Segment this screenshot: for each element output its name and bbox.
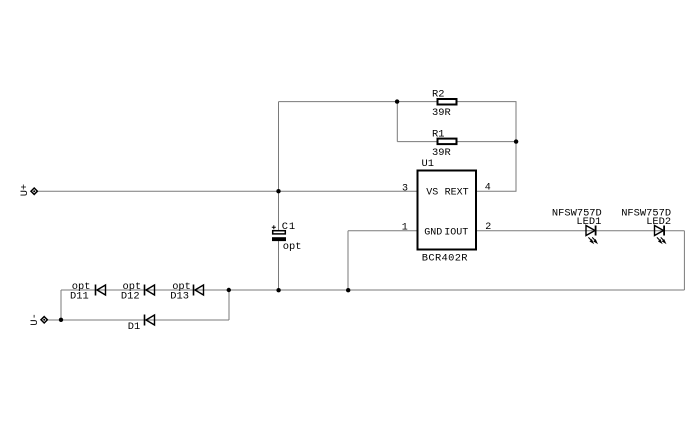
svg-text:1: 1 bbox=[402, 223, 408, 234]
junction node at (348,290) bbox=[346, 288, 350, 292]
junction node at (278.5,290) bbox=[276, 288, 280, 292]
diode D13 bbox=[194, 285, 204, 296]
resistor R2 bbox=[438, 99, 457, 105]
junction node at (278.5,191) bbox=[276, 189, 280, 193]
wire R2 branch bbox=[397, 101, 516, 103]
wire left resistor node vertical bbox=[396, 102, 398, 142]
svg-text:U-: U- bbox=[29, 313, 41, 325]
svg-text:3: 3 bbox=[402, 183, 408, 194]
wire pin 1 GND bbox=[348, 230, 418, 232]
capacitor C1 bbox=[272, 225, 286, 241]
resistor R1 bbox=[438, 139, 457, 145]
svg-text:R1: R1 bbox=[432, 129, 444, 141]
svg-text:LED2: LED2 bbox=[646, 216, 671, 228]
svg-text:39R: 39R bbox=[432, 147, 451, 159]
svg-text:BCR402R: BCR402R bbox=[422, 253, 468, 265]
wire top horizontal to resistor node bbox=[279, 101, 398, 103]
terminal U- bbox=[29, 313, 48, 325]
junction node at (516,141.5) bbox=[514, 139, 518, 143]
svg-text:U+: U+ bbox=[19, 184, 31, 196]
junction node at (228.5,290) bbox=[227, 288, 231, 292]
wire C1 upper lead bbox=[278, 191, 280, 232]
wire U+ to pin 3 bbox=[38, 190, 417, 192]
svg-text:D11: D11 bbox=[70, 291, 89, 303]
svg-text:IOUT: IOUT bbox=[444, 227, 468, 238]
wire D1 branch right vertical bbox=[228, 290, 230, 320]
LED LED1 bbox=[586, 226, 597, 244]
svg-text:GND: GND bbox=[424, 227, 442, 238]
svg-text:VS: VS bbox=[426, 188, 438, 199]
svg-text:LED1: LED1 bbox=[576, 216, 601, 228]
wire LED output vertical down bbox=[683, 231, 685, 290]
svg-text:D1: D1 bbox=[128, 321, 140, 333]
diode D12 bbox=[145, 285, 155, 296]
svg-text:4: 4 bbox=[485, 183, 491, 194]
op-amp U1 box bbox=[418, 171, 477, 250]
svg-text:2: 2 bbox=[485, 222, 491, 233]
wire GND vertical down to rail bbox=[347, 231, 349, 290]
wire U- junction vertical up bbox=[60, 290, 62, 320]
svg-text:C1: C1 bbox=[282, 221, 296, 233]
wire U- to D1 branch bbox=[48, 319, 229, 321]
junction node at (61,320) bbox=[59, 318, 63, 322]
wire right resistor node vertical bbox=[515, 102, 517, 192]
terminal U+ bbox=[19, 184, 37, 196]
svg-text:U1: U1 bbox=[422, 158, 434, 170]
diode D1 bbox=[145, 315, 155, 326]
junction node at (397,101.5) bbox=[395, 99, 399, 103]
diode D11 bbox=[96, 285, 106, 296]
svg-text:D12: D12 bbox=[121, 291, 140, 303]
svg-text:39R: 39R bbox=[432, 107, 451, 119]
svg-text:opt: opt bbox=[283, 241, 302, 253]
wire C1 lower lead bbox=[278, 240, 280, 290]
wire pin 2 IOUT through LEDs bbox=[476, 230, 684, 232]
svg-text:REXT: REXT bbox=[445, 188, 469, 199]
wire pin 4 to resistor node bbox=[476, 190, 517, 192]
wire R1 branch bbox=[397, 141, 516, 143]
LED LED2 bbox=[655, 226, 666, 244]
wire vertical from node at (278.5,191) up bbox=[278, 102, 280, 192]
wire bottom rail bbox=[61, 289, 684, 291]
svg-text:R2: R2 bbox=[432, 89, 444, 101]
svg-text:D13: D13 bbox=[170, 291, 189, 303]
